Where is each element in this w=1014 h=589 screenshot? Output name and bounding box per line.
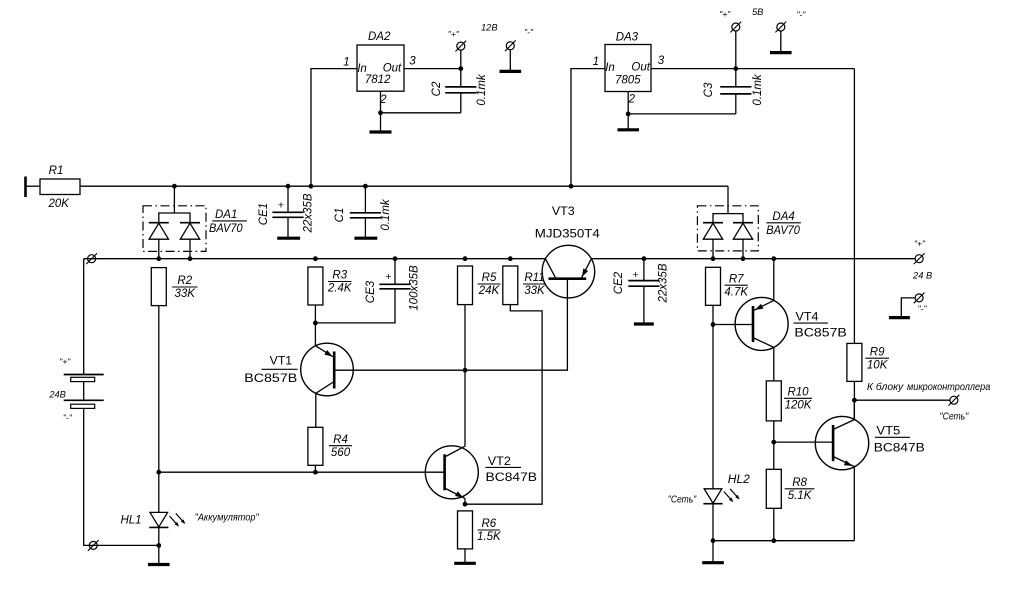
transistor VT4 BC857B [735, 259, 788, 381]
label VT1 [244, 353, 297, 385]
node R4 bottom junction [313, 470, 318, 475]
svg-text:R2: R2 [177, 275, 192, 287]
svg-text:33K: 33K [524, 285, 546, 297]
label R11 [523, 272, 546, 297]
svg-text:3: 3 [409, 56, 416, 68]
svg-text:24 В: 24 В [912, 270, 932, 280]
resistor R7 [706, 267, 721, 305]
terminal bottom left [88, 540, 99, 551]
pin 3 DA3 [658, 55, 665, 67]
wire to microcontroller terminal [854, 399, 950, 401]
node DA3 pin2 junction [626, 112, 631, 117]
svg-text:"-": "-" [918, 303, 928, 313]
svg-text:R7: R7 [729, 273, 744, 285]
svg-text:22х35В: 22х35В [303, 193, 315, 233]
resistor R3 [308, 267, 323, 305]
VT3 emitter arrow [582, 269, 588, 278]
svg-text:+: + [632, 269, 638, 281]
node DA4 right junction [741, 256, 746, 261]
label MJD350T4 [535, 227, 600, 241]
resistor R9 [847, 343, 862, 381]
svg-text:7805: 7805 [615, 75, 641, 87]
label 7812 [365, 74, 391, 86]
plus CE1 [278, 200, 284, 212]
wire HL2 bottom [712, 504, 714, 541]
label "-" 5V [796, 10, 806, 20]
wire main bus right of VT3 [591, 258, 915, 260]
wire DA3 out vertical to R9 [853, 69, 855, 344]
svg-text:1: 1 [593, 56, 599, 68]
terminal +12V [455, 41, 466, 52]
terminal bus left [86, 253, 97, 264]
wire bottom bus right [713, 540, 854, 542]
label R9 [865, 346, 889, 371]
label VT3 [552, 204, 575, 218]
svg-text:К блоку: К блоку [867, 382, 904, 393]
value C1 0.1mk [380, 198, 392, 231]
wire VT4 base [713, 324, 753, 326]
terminal -12V [505, 40, 516, 51]
svg-text:0.1mk: 0.1mk [752, 73, 764, 106]
node R8 bottom junction [771, 538, 776, 543]
svg-text:C3: C3 [703, 82, 715, 97]
node CE3 junction [393, 256, 398, 261]
label C3 [703, 82, 715, 97]
label VT2 [486, 454, 538, 484]
svg-text:VT3: VT3 [552, 204, 575, 218]
svg-text:HL2: HL2 [728, 474, 751, 486]
svg-text:BC857B: BC857B [244, 371, 297, 385]
transistor VT3 MJD350T4 [542, 245, 595, 298]
label "+" 5V [719, 9, 731, 19]
label Сеть HL2 [668, 494, 697, 505]
svg-text:In: In [357, 63, 367, 75]
ground DA2 [370, 130, 392, 133]
LED HL1 [149, 512, 168, 527]
resistor R8 [766, 469, 781, 508]
wire battery bottom [84, 408, 159, 545]
node HL1 bottom junction [156, 543, 161, 548]
node VT1 base R5 line junction [463, 368, 468, 373]
wire R5 to VT2 collector [464, 305, 466, 447]
node VT4 emitter junction [771, 256, 776, 261]
resistor R11 [503, 266, 518, 305]
svg-text:BAV70: BAV70 [209, 223, 243, 235]
label "-" 12V [524, 27, 534, 37]
wire VT5 base [774, 441, 833, 443]
VT5 emitter arrow [844, 460, 853, 466]
svg-text:R3: R3 [332, 270, 347, 282]
wire DA2 Out [404, 68, 461, 70]
wire DA4 splitter [713, 214, 743, 223]
svg-text:"-": "-" [63, 413, 73, 423]
svg-text:"-": "-" [796, 10, 806, 20]
node VT4 base junction [711, 322, 716, 327]
op-amp DA3 box 7805 [605, 45, 651, 92]
label R10 [784, 387, 813, 412]
plus CE2 [632, 269, 638, 281]
svg-text:C2: C2 [431, 81, 443, 96]
svg-text:"-": "-" [524, 27, 534, 37]
svg-text:1.5K: 1.5K [477, 531, 502, 543]
label "+" 12V [448, 29, 460, 39]
wire -24V terminal [901, 298, 915, 316]
svg-text:BC857B: BC857B [794, 325, 846, 339]
resistor R2 [151, 268, 166, 306]
label C1 [334, 208, 346, 223]
svg-text:5В: 5В [752, 7, 763, 17]
ground -5V terminal [770, 31, 792, 52]
pin 1 DA2 [343, 57, 349, 69]
node R5 junction [463, 256, 468, 261]
pin 3 DA2 [409, 56, 416, 68]
node CE2 junction [642, 256, 647, 261]
wire to +12 terminal [460, 50, 462, 68]
wire R9 bottom [853, 381, 855, 419]
VT1 emitter arrow [324, 350, 332, 357]
svg-text:HL1: HL1 [120, 515, 141, 527]
node C1 tap [363, 184, 368, 189]
svg-text:0.1mk: 0.1mk [476, 73, 488, 106]
DA1 dashed box [143, 206, 206, 252]
VT2 emitter arrow [455, 491, 464, 497]
svg-text:"+": "+" [719, 9, 731, 19]
diode DA1 right [180, 223, 200, 240]
label "+" 24V [914, 238, 926, 248]
pin 2 DA2 [379, 94, 387, 106]
svg-text:R4: R4 [333, 434, 348, 446]
wire DA4 left diode to bus [712, 239, 714, 259]
label CE3 [365, 280, 377, 303]
label "-" 24V [918, 303, 928, 313]
svg-text:"Сеть": "Сеть" [668, 494, 697, 505]
label DA2 [368, 31, 391, 43]
svg-text:MJD350T4: MJD350T4 [535, 227, 600, 241]
terminal -24V [914, 293, 925, 304]
value 20K [47, 198, 70, 210]
pin 1 DA3 [593, 56, 599, 68]
pin 2 DA3 [628, 94, 636, 106]
svg-text:R9: R9 [870, 346, 885, 358]
wire DA1 right diode to bus [189, 239, 191, 259]
node VT2 emitter junction [463, 502, 468, 507]
svg-text:R1: R1 [49, 165, 64, 177]
svg-text:12В: 12В [481, 22, 498, 32]
node CE3 bottom junction [313, 321, 318, 326]
svg-text:Out: Out [383, 62, 402, 74]
ground C1 [354, 237, 377, 240]
label R7 [724, 273, 749, 298]
svg-text:In: In [605, 62, 615, 74]
label CE1 [258, 203, 270, 225]
wire R2 to HL1 [158, 306, 160, 513]
label R1 [49, 165, 64, 177]
svg-text:+: + [278, 200, 284, 212]
plus CE3 [385, 271, 391, 283]
label VT4 [794, 310, 847, 340]
battery 24V [64, 375, 104, 409]
svg-text:"Аккумулятор": "Аккумулятор" [195, 512, 260, 523]
svg-text:2.4K: 2.4K [327, 283, 353, 295]
svg-text:120K: 120K [785, 400, 813, 412]
transistor VT1 BC857B [301, 343, 354, 427]
svg-text:Out: Out [631, 61, 650, 73]
VT4 emitter arrow [755, 304, 764, 310]
input terminal bar [24, 177, 27, 198]
node DA2 pin2 junction [378, 110, 383, 115]
label In DA3 [605, 62, 615, 74]
wire R3 to VT1 [314, 305, 316, 346]
label 24 V [912, 270, 932, 280]
label К блоку микроконтроллера [867, 382, 991, 393]
label C2 [431, 81, 443, 96]
svg-text:5.1K: 5.1K [788, 490, 813, 502]
node R11 junction [508, 256, 513, 261]
wire R8 bottom [773, 508, 775, 540]
svg-text:10K: 10K [867, 359, 889, 371]
svg-text:4.7K: 4.7K [724, 286, 749, 298]
node VT5 base junction [771, 440, 776, 445]
label Out DA2 [383, 62, 402, 74]
svg-text:CE3: CE3 [365, 280, 377, 303]
resistor R6 [458, 511, 473, 549]
svg-text:VT5: VT5 [876, 424, 900, 438]
node CE1 tap [286, 184, 291, 189]
svg-text:560: 560 [331, 447, 351, 459]
transistor VT2 BC847B [425, 446, 478, 504]
LED HL2 [703, 489, 722, 504]
ground HL2 [702, 541, 724, 563]
svg-text:1: 1 [343, 57, 349, 69]
wire DA1 drop [173, 186, 175, 213]
terminal +5V [730, 22, 741, 33]
value C2 0.1mk [476, 73, 488, 106]
wire DA3 In [571, 69, 605, 187]
HL2 light arrows [724, 489, 740, 502]
svg-text:"+": "+" [914, 238, 926, 248]
svg-text:CE1: CE1 [258, 203, 270, 225]
label R6 [477, 518, 502, 543]
label "-" battery [63, 413, 73, 423]
svg-text:BC847B: BC847B [486, 470, 538, 484]
diode DA1 left [149, 223, 169, 240]
terminal +24V [914, 253, 925, 264]
HL1 light arrows [170, 513, 186, 526]
ground HL1 [148, 545, 170, 564]
svg-text:DA1: DA1 [215, 209, 237, 221]
node DA3 input tap [569, 184, 574, 189]
label R5 [478, 272, 501, 297]
label DA3 [616, 32, 639, 44]
svg-text:+: + [385, 271, 391, 283]
node base-line left junction [156, 470, 161, 475]
wire input to R1 [26, 185, 41, 187]
svg-text:R10: R10 [787, 387, 809, 399]
label HL2 [728, 474, 751, 486]
label HL1 [120, 515, 141, 527]
svg-text:R5: R5 [482, 272, 497, 284]
capacitor CE2 [628, 259, 659, 323]
node microcontroller junction [852, 398, 857, 403]
label "+" battery [59, 357, 71, 367]
ground CE2 [634, 322, 654, 325]
svg-text:DA4: DA4 [772, 211, 794, 223]
wire VT1 base [334, 279, 567, 371]
node DA1 right diode junction [188, 256, 193, 261]
resistor R1 [40, 179, 80, 195]
wire battery top [83, 259, 85, 375]
wire DA3 pin2 stem [627, 92, 629, 129]
node DA1 tap [172, 184, 177, 189]
resistor R10 [766, 381, 781, 421]
wire DA2 In [311, 69, 357, 187]
node R7 DA4 left junction [711, 256, 716, 261]
wire HL1 to bottom [158, 527, 160, 545]
svg-text:22х35В: 22х35В [658, 263, 670, 303]
label Аккумулятор [195, 512, 260, 523]
label R4 [329, 434, 352, 459]
ground -12V terminal [500, 50, 522, 72]
wire R11 elbow down [465, 305, 542, 505]
capacitor CE3 [315, 259, 410, 323]
label DA1 [209, 209, 247, 235]
wire C2 to DA2 pin2 [381, 112, 461, 114]
capacitor C2 [445, 69, 476, 113]
wire R7 down to HL2 [712, 305, 714, 489]
ground -24V [889, 316, 910, 319]
svg-text:микроконтроллера: микроконтроллера [907, 382, 991, 393]
label R8 [785, 477, 815, 502]
svg-text:"Сеть": "Сеть" [940, 412, 969, 423]
wire main bus left of VT3 [84, 258, 546, 260]
svg-text:VT2: VT2 [488, 454, 511, 468]
diode DA4 left [703, 223, 723, 240]
terminal Сеть output [949, 395, 960, 406]
ground R6 [454, 549, 476, 563]
node R2 diode junction [156, 256, 161, 261]
label Out DA3 [631, 61, 650, 73]
svg-text:C1: C1 [334, 208, 346, 223]
wire DA1 splitter [159, 213, 190, 223]
wire R10 to R8 [773, 421, 775, 469]
svg-text:DA3: DA3 [616, 32, 639, 44]
svg-text:BAV70: BAV70 [766, 225, 800, 237]
value CE3 100x35B [408, 265, 420, 311]
svg-text:24K: 24K [478, 285, 501, 297]
wire DA1 left diode to bus [158, 239, 160, 259]
op-amp DA2 box 7812 [357, 45, 404, 91]
label CE2 [613, 271, 625, 294]
capacitor C3 [720, 69, 751, 114]
value CE1 22x35B [303, 193, 315, 233]
label 24B battery [48, 390, 66, 400]
resistor R5 [458, 266, 473, 305]
diode DA4 right [733, 223, 753, 240]
svg-text:20K: 20K [47, 198, 70, 210]
wire R1 output bus y=186 [80, 185, 728, 187]
label VT5 [874, 424, 925, 455]
node DA2 input tap [309, 184, 314, 189]
value C3 0.1mk [752, 73, 764, 106]
wire base line horizontal [159, 471, 445, 473]
ground CE1 [277, 237, 300, 240]
svg-text:DA2: DA2 [368, 31, 391, 43]
node R3 junction [313, 256, 318, 261]
label Сеть output [940, 412, 969, 423]
wire to +5 terminal [735, 31, 737, 69]
ground DA3 [618, 128, 640, 131]
resistor R4 [308, 427, 323, 465]
capacitor CE1 [272, 186, 303, 237]
svg-text:24В: 24В [48, 390, 66, 400]
wire C3 to DA3 pin2 [628, 113, 736, 115]
label R3 [327, 270, 353, 295]
wire DA2 pin2 stem [380, 91, 382, 131]
label DA4 [766, 211, 801, 237]
label 7805 [615, 75, 641, 87]
svg-text:"+": "+" [448, 29, 460, 39]
svg-text:R6: R6 [481, 518, 496, 530]
svg-text:BC847B: BC847B [874, 441, 925, 455]
svg-text:100х35В: 100х35В [408, 265, 420, 311]
svg-text:0.1mk: 0.1mk [380, 198, 392, 231]
svg-text:R8: R8 [792, 477, 807, 489]
value CE2 22x35B [658, 263, 670, 303]
label 5B [752, 7, 763, 17]
svg-text:VT1: VT1 [270, 353, 293, 367]
svg-text:33K: 33K [175, 288, 197, 300]
capacitor C1 [350, 186, 381, 237]
wire DA3 Out [651, 68, 854, 70]
transistor VT5 BC847B [815, 400, 868, 541]
label 12B [481, 22, 498, 32]
node HL2 bottom junction [711, 538, 716, 543]
label In DA2 [357, 63, 367, 75]
DA4 dashed box [697, 206, 758, 251]
node DA2 out junction [458, 66, 463, 71]
node DA3 out junction [733, 66, 738, 71]
svg-text:3: 3 [658, 55, 665, 67]
svg-text:VT4: VT4 [796, 310, 819, 324]
wire DA4 right diode to bus [742, 239, 744, 259]
svg-text:"+": "+" [59, 357, 71, 367]
label R2 [172, 275, 198, 300]
wire R4 to base line [314, 465, 316, 472]
svg-text:7812: 7812 [365, 74, 391, 86]
svg-text:CE2: CE2 [613, 271, 625, 294]
wire bus corner down to DA4 [727, 186, 729, 213]
terminal -5V [775, 22, 786, 33]
